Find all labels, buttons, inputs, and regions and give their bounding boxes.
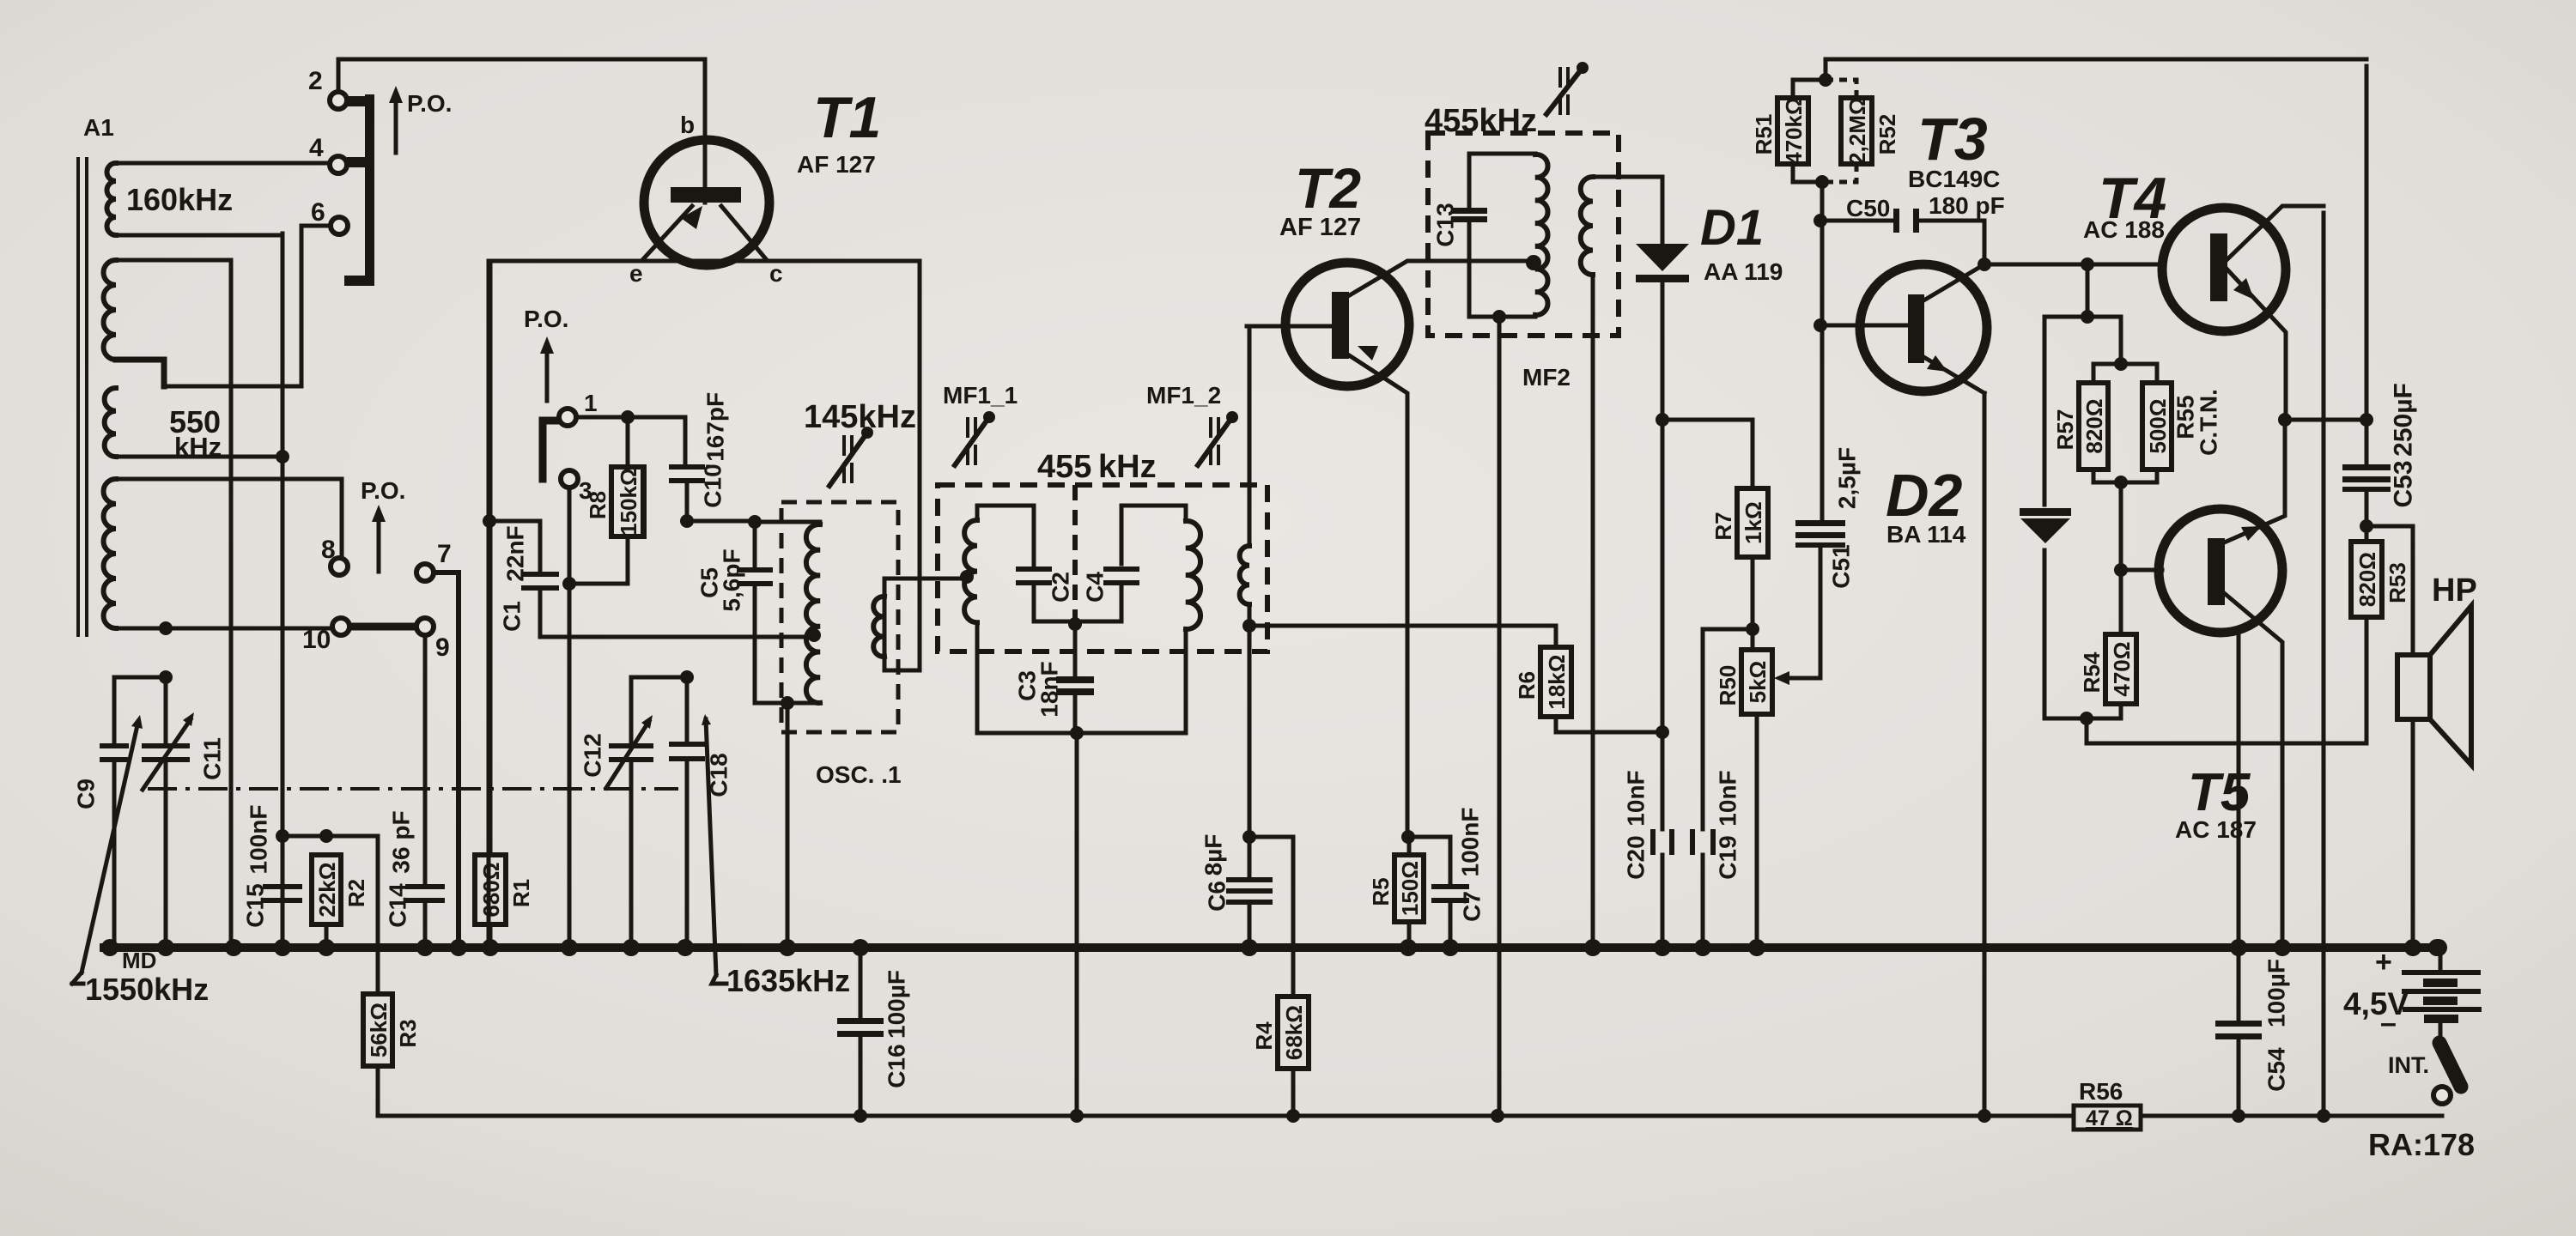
svg-text:MF2: MF2 — [1522, 364, 1571, 391]
svg-text:R3: R3 — [395, 1019, 421, 1047]
svg-text:160kHz: 160kHz — [126, 182, 233, 217]
svg-text:C6: C6 — [1204, 881, 1230, 912]
svg-text:C19: C19 — [1715, 835, 1741, 879]
svg-text:–: – — [2380, 1007, 2397, 1039]
svg-text:250µF: 250µF — [2390, 383, 2418, 457]
svg-text:10nF: 10nF — [1715, 770, 1741, 826]
svg-text:8: 8 — [321, 536, 336, 564]
svg-text:OSC. .1: OSC. .1 — [816, 761, 902, 788]
svg-text:10nF: 10nF — [1623, 770, 1649, 826]
svg-text:C12: C12 — [580, 733, 606, 777]
svg-text:455 kHz: 455 kHz — [1037, 449, 1157, 485]
svg-text:22kΩ: 22kΩ — [314, 862, 340, 917]
svg-text:820Ω: 820Ω — [2354, 552, 2380, 607]
svg-text:HP: HP — [2432, 573, 2477, 609]
svg-text:R8: R8 — [585, 491, 611, 519]
svg-text:AF 127: AF 127 — [797, 151, 876, 178]
svg-text:R4: R4 — [1251, 1021, 1277, 1051]
svg-text:1550kHz: 1550kHz — [85, 972, 209, 1007]
svg-text:AC 187: AC 187 — [2175, 816, 2257, 843]
svg-text:18kΩ: 18kΩ — [1544, 654, 1570, 709]
svg-text:T3: T3 — [1917, 106, 1988, 173]
svg-text:R1: R1 — [508, 879, 534, 907]
svg-text:5,6pF: 5,6pF — [719, 548, 745, 611]
svg-text:8µF: 8µF — [1200, 834, 1227, 876]
svg-text:C18: C18 — [706, 753, 732, 797]
svg-text:ˈ167pF: ˈ167pF — [702, 392, 729, 470]
svg-text:R51: R51 — [1751, 114, 1777, 155]
svg-text:22nF: 22nF — [502, 525, 529, 581]
svg-text:C9: C9 — [73, 779, 100, 809]
svg-text:T5: T5 — [2188, 763, 2251, 822]
svg-text:1635kHz: 1635kHz — [726, 963, 850, 998]
svg-text:100µF: 100µF — [2263, 959, 2290, 1027]
svg-text:C1: C1 — [499, 601, 526, 632]
svg-text:10: 10 — [302, 626, 331, 654]
svg-text:D1: D1 — [1700, 200, 1764, 256]
svg-text:100nF: 100nF — [1457, 808, 1484, 877]
svg-text:100µF: 100µF — [884, 970, 910, 1039]
svg-text:R56: R56 — [2079, 1078, 2123, 1105]
svg-text:A1: A1 — [83, 114, 114, 141]
svg-text:INT.: INT. — [2388, 1052, 2429, 1078]
svg-text:47 Ω: 47 Ω — [2086, 1106, 2133, 1130]
svg-text:c: c — [769, 260, 783, 287]
svg-text:56kΩ: 56kΩ — [366, 1003, 392, 1057]
svg-text:180 pF: 180 pF — [1929, 192, 2005, 219]
svg-text:R54: R54 — [2079, 651, 2105, 693]
svg-text:6: 6 — [311, 198, 325, 227]
svg-text:BC149C: BC149C — [1908, 166, 2000, 192]
svg-text:4: 4 — [309, 134, 324, 162]
svg-text:500Ω: 500Ω — [2145, 398, 2171, 453]
svg-text:b: b — [680, 112, 695, 138]
svg-text:7: 7 — [437, 540, 452, 568]
svg-text:C14: C14 — [385, 883, 411, 928]
svg-text:R5: R5 — [1368, 877, 1394, 906]
svg-text:150Ω: 150Ω — [1397, 861, 1423, 916]
svg-text:100nF: 100nF — [246, 805, 272, 875]
svg-text:T2: T2 — [1295, 156, 1361, 220]
svg-text:36 pF: 36 pF — [388, 810, 415, 873]
svg-text:P.O.: P.O. — [361, 477, 405, 504]
svg-text:MF1_2: MF1_2 — [1146, 382, 1221, 409]
svg-text:T1: T1 — [813, 85, 881, 150]
svg-text:AF 127: AF 127 — [1279, 214, 1361, 241]
svg-text:1: 1 — [584, 390, 598, 416]
svg-text:C13: C13 — [1432, 203, 1459, 246]
svg-text:C20: C20 — [1623, 835, 1649, 879]
svg-text:MF1_1: MF1_1 — [943, 382, 1018, 409]
svg-text:R53: R53 — [2385, 562, 2410, 603]
svg-text:+: + — [2375, 946, 2392, 978]
svg-text:150kΩ: 150kΩ — [616, 468, 641, 536]
svg-text:2,2MΩ: 2,2MΩ — [1844, 97, 1870, 165]
svg-text:MD: MD — [122, 948, 156, 973]
svg-text:C50: C50 — [1846, 195, 1890, 221]
svg-text:R2: R2 — [343, 879, 369, 907]
svg-text:455kHz: 455kHz — [1425, 103, 1537, 139]
svg-text:R50: R50 — [1715, 665, 1741, 706]
svg-text:C15: C15 — [242, 883, 269, 927]
svg-text:2,5µF: 2,5µF — [1834, 447, 1861, 509]
svg-text:P.O.: P.O. — [407, 90, 452, 117]
svg-text:C4: C4 — [1082, 572, 1109, 603]
svg-text:R52: R52 — [1874, 114, 1900, 155]
svg-text:R57: R57 — [2052, 409, 2078, 451]
svg-text:e: e — [629, 260, 643, 287]
svg-text:680Ω: 680Ω — [478, 862, 504, 917]
svg-text:145kHz: 145kHz — [804, 399, 916, 435]
svg-text:R6: R6 — [1514, 671, 1540, 700]
svg-text:C51: C51 — [1828, 544, 1855, 588]
svg-text:C11: C11 — [199, 737, 226, 780]
svg-text:68kΩ: 68kΩ — [1281, 1005, 1307, 1060]
svg-text:kHz: kHz — [174, 432, 222, 462]
svg-text:C7: C7 — [1459, 891, 1485, 922]
svg-text:C2: C2 — [1048, 572, 1074, 603]
svg-text:RA:178: RA:178 — [2368, 1127, 2475, 1162]
svg-text:9: 9 — [435, 633, 450, 662]
svg-text:4,5V: 4,5V — [2343, 986, 2409, 1021]
svg-text:2: 2 — [308, 67, 323, 95]
svg-text:AA 119: AA 119 — [1704, 258, 1783, 285]
svg-text:R7: R7 — [1710, 512, 1736, 540]
svg-text:P.O.: P.O. — [524, 306, 568, 332]
svg-text:AC 188: AC 188 — [2083, 216, 2165, 243]
svg-text:820Ω: 820Ω — [2081, 398, 2107, 453]
svg-text:BA 114: BA 114 — [1886, 521, 1966, 548]
svg-text:C16: C16 — [884, 1044, 910, 1088]
svg-text:470Ω: 470Ω — [2109, 641, 2135, 696]
svg-text:C.T.N.: C.T.N. — [2196, 389, 2222, 456]
svg-text:18nF: 18nF — [1036, 661, 1063, 717]
svg-text:C54: C54 — [2263, 1047, 2290, 1092]
svg-text:5kΩ: 5kΩ — [1745, 661, 1771, 704]
svg-text:470kΩ: 470kΩ — [1781, 97, 1807, 165]
svg-text:D2: D2 — [1886, 462, 1963, 529]
svg-text:C53: C53 — [2390, 460, 2418, 507]
svg-text:1kΩ: 1kΩ — [1741, 501, 1766, 544]
